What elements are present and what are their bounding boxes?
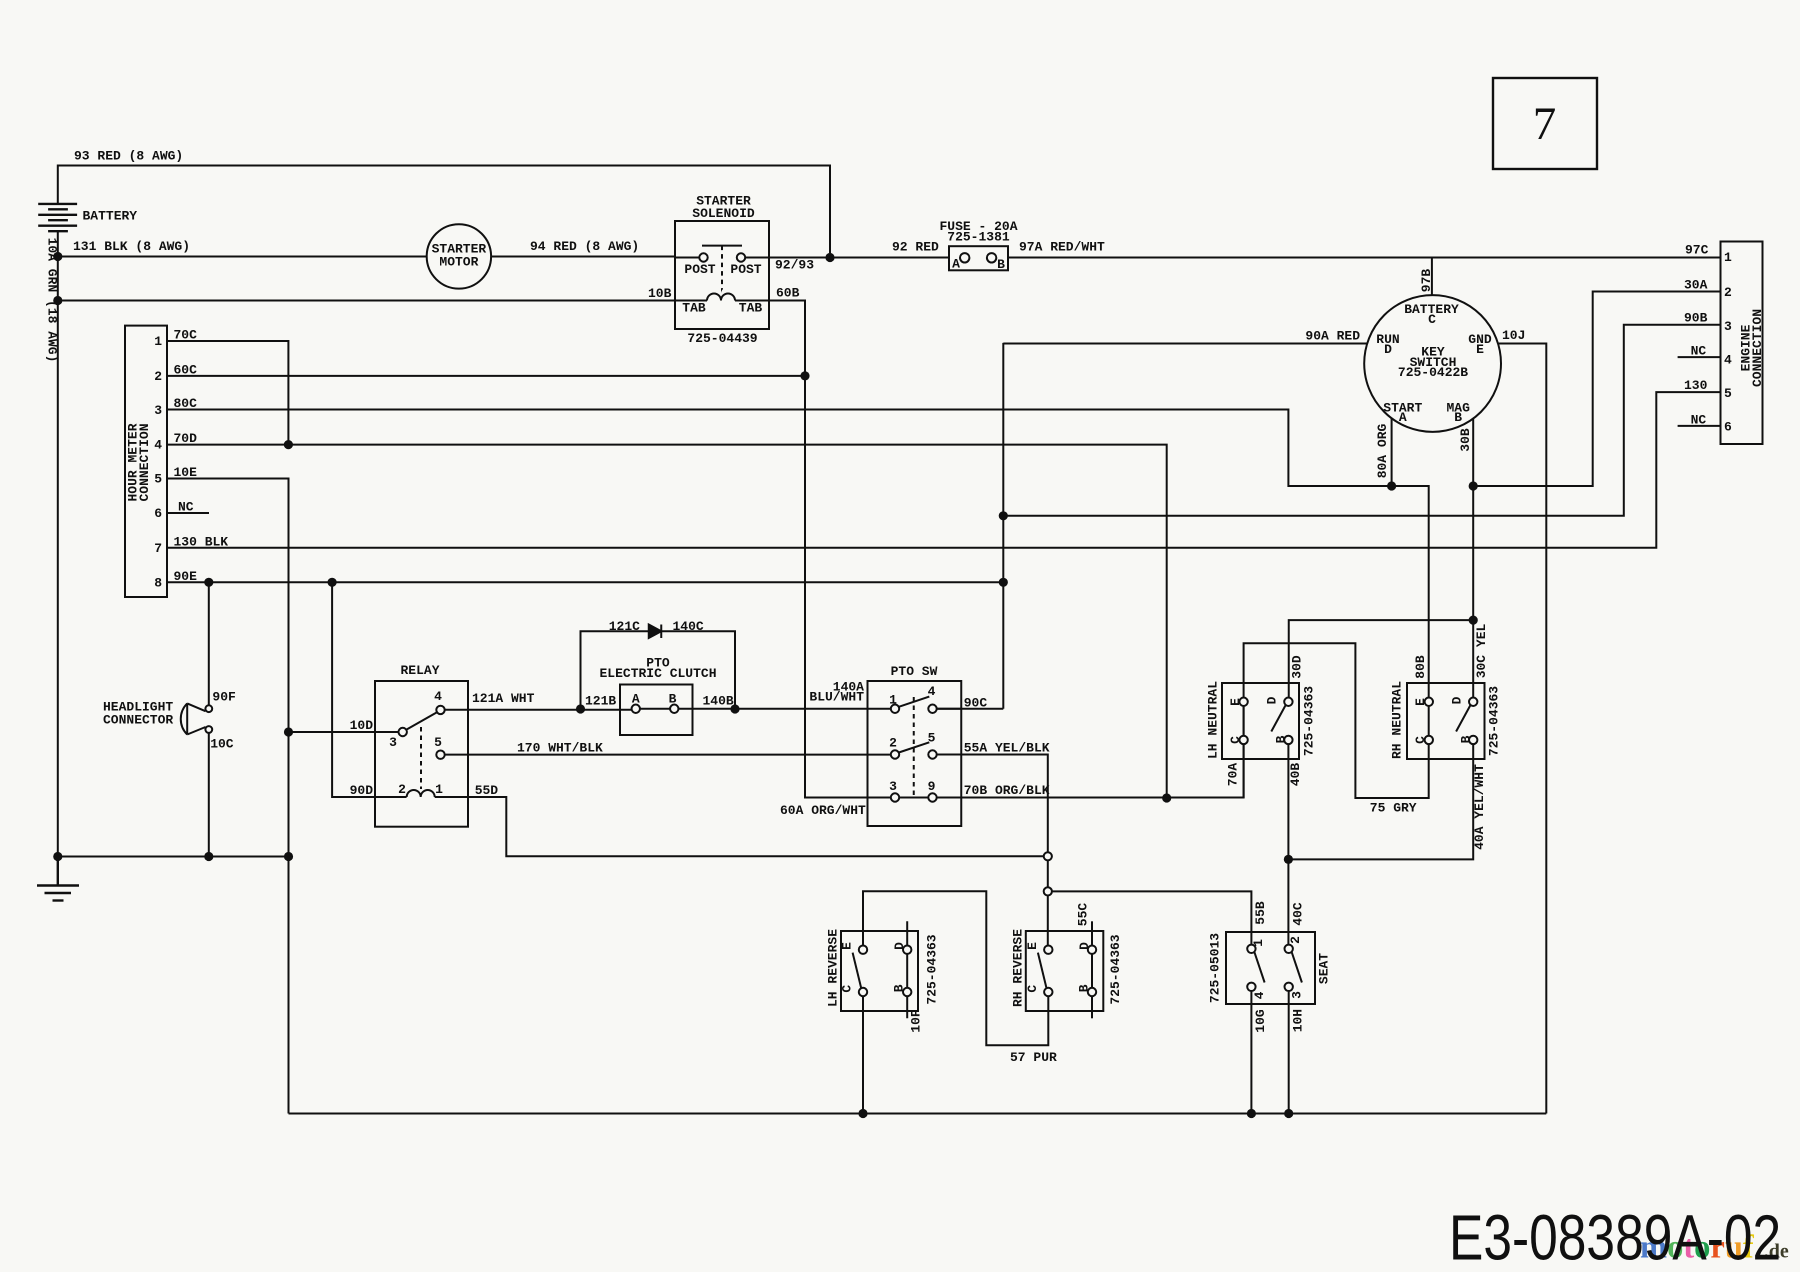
node battery-131 junction bbox=[53, 252, 62, 261]
lh reverse 725-04363 bbox=[841, 921, 918, 1018]
svg-text:TAB: TAB bbox=[682, 301, 706, 316]
svg-text:A: A bbox=[632, 692, 640, 707]
wire 80 net bbox=[167, 410, 1429, 698]
svg-text:90E: 90E bbox=[174, 569, 198, 584]
svg-text:8: 8 bbox=[154, 575, 162, 590]
wire seat 10G bbox=[1250, 991, 1252, 1114]
wire 90 vertical bbox=[1002, 343, 1004, 709]
svg-text:725-04363: 725-04363 bbox=[925, 934, 940, 1004]
wire 60 vertical to PTO bbox=[805, 376, 891, 798]
svg-text:40A YEL/WHT: 40A YEL/WHT bbox=[1472, 764, 1487, 850]
label 92 RED bbox=[892, 240, 939, 255]
wire 57 PUR bbox=[863, 891, 1048, 1045]
rh reverse 725-04363 bbox=[1026, 921, 1104, 1018]
label 30C YEL bbox=[1474, 623, 1489, 678]
node 90 junction bbox=[999, 511, 1008, 520]
label 55B bbox=[1253, 901, 1268, 925]
wire 55D bbox=[435, 797, 1044, 856]
svg-text:CONNECTION: CONNECTION bbox=[137, 423, 152, 501]
svg-text:725-0422B: 725-0422B bbox=[1398, 365, 1468, 380]
engine connection bbox=[1678, 242, 1763, 445]
wire 94 RED bbox=[491, 256, 675, 258]
svg-text:RH NEUTRAL: RH NEUTRAL bbox=[1390, 681, 1405, 759]
svg-text:725-04363: 725-04363 bbox=[1108, 934, 1123, 1004]
label 75 GRY bbox=[1370, 801, 1417, 816]
svg-text:CONNECTION: CONNECTION bbox=[1750, 309, 1765, 387]
label clutch A B bbox=[632, 692, 677, 707]
svg-text:92/93: 92/93 bbox=[775, 258, 814, 273]
open circle 55B connector bbox=[1044, 887, 1052, 895]
hour meter connection bbox=[125, 326, 167, 597]
wire NC pin6 stub bbox=[167, 512, 209, 514]
svg-text:RELAY: RELAY bbox=[400, 663, 439, 678]
wire lh reverse C to rail bbox=[862, 996, 864, 1113]
svg-text:1: 1 bbox=[154, 334, 162, 349]
svg-text:D: D bbox=[1077, 942, 1092, 950]
svg-text:ELECTRIC CLUTCH: ELECTRIC CLUTCH bbox=[599, 666, 716, 681]
wire 60C bbox=[167, 375, 805, 377]
wire 90A RED bbox=[1003, 343, 1367, 345]
label E3-08389A-02 bbox=[1449, 1202, 1781, 1272]
svg-text:140C: 140C bbox=[673, 619, 704, 634]
svg-text:2: 2 bbox=[1724, 285, 1732, 300]
svg-text:30D: 30D bbox=[1290, 655, 1305, 679]
node 121B junction bbox=[576, 704, 585, 713]
svg-text:D: D bbox=[1449, 696, 1464, 704]
svg-text:D: D bbox=[1384, 342, 1392, 357]
node headlight ground junction bbox=[204, 852, 213, 861]
svg-text:9: 9 bbox=[928, 779, 936, 794]
key switch 725-0422B bbox=[1364, 295, 1501, 432]
svg-text:55B: 55B bbox=[1253, 901, 1268, 925]
svg-text:70C: 70C bbox=[174, 328, 198, 343]
wire 55B to seat bbox=[1052, 891, 1252, 944]
label 55A YEL/BLK bbox=[964, 740, 1050, 755]
svg-text:6: 6 bbox=[154, 506, 162, 521]
svg-text:30A: 30A bbox=[1684, 278, 1708, 293]
label key switch bbox=[1376, 302, 1492, 425]
svg-text:C: C bbox=[1025, 985, 1040, 993]
node rail 10G junction bbox=[1247, 1109, 1256, 1118]
label seat pins bbox=[1251, 936, 1305, 1000]
starter solenoid 725-04439 bbox=[675, 221, 830, 329]
wire 70C bbox=[167, 341, 288, 445]
wire 10B bbox=[58, 300, 707, 302]
svg-text:4: 4 bbox=[1252, 991, 1267, 999]
label RELAY bbox=[400, 663, 439, 678]
svg-text:140B: 140B bbox=[703, 694, 734, 709]
svg-text:10H: 10H bbox=[1291, 1009, 1306, 1032]
wire 131 BLK bbox=[58, 256, 427, 258]
svg-text:C: C bbox=[1428, 312, 1436, 327]
svg-text:C: C bbox=[840, 985, 855, 993]
svg-text:B: B bbox=[1076, 984, 1091, 992]
svg-text:30B: 30B bbox=[1458, 428, 1473, 452]
label engine connection bbox=[1739, 309, 1766, 387]
svg-text:B: B bbox=[1454, 410, 1462, 425]
svg-text:5: 5 bbox=[434, 735, 442, 750]
svg-text:E: E bbox=[1476, 342, 1484, 357]
wire 70B ORG/BLK bbox=[961, 706, 1243, 798]
label 55D bbox=[475, 783, 499, 798]
label 10A GRN bbox=[45, 238, 60, 363]
svg-text:D: D bbox=[1265, 696, 1280, 704]
wire 10E bbox=[167, 479, 289, 1114]
wire 60B bbox=[769, 301, 805, 376]
label 140A BLU/WHT bbox=[809, 680, 864, 705]
label rh neutral 725-04363 bbox=[1487, 686, 1502, 756]
label lh reverse 725-04363 bbox=[925, 934, 940, 1004]
svg-text:130: 130 bbox=[1684, 378, 1708, 393]
wire 90C bbox=[937, 708, 1004, 710]
label RH REVERSE bbox=[1011, 929, 1026, 1007]
label fuse bbox=[939, 219, 1017, 245]
starter motor bbox=[427, 224, 491, 288]
node 60 junction bbox=[800, 371, 809, 380]
svg-text:3: 3 bbox=[889, 779, 897, 794]
label 57 PUR bbox=[1010, 1050, 1057, 1065]
label 725-04439 bbox=[687, 331, 757, 346]
svg-text:10G: 10G bbox=[1253, 1009, 1268, 1033]
label 70B ORG/BLK bbox=[964, 783, 1050, 798]
label 40C bbox=[1291, 902, 1306, 926]
label 121C 140C bbox=[609, 619, 704, 634]
svg-text:97B: 97B bbox=[1419, 269, 1434, 293]
svg-text:170 WHT/BLK: 170 WHT/BLK bbox=[517, 740, 603, 755]
label 121B 140B bbox=[585, 694, 734, 709]
label 131 BLK bbox=[73, 239, 190, 254]
node rail lh reverse junction bbox=[858, 1109, 867, 1118]
node 90E junction bbox=[999, 578, 1008, 587]
wire 40B bbox=[1287, 744, 1289, 859]
label engine numbers bbox=[1724, 250, 1732, 435]
wire 40C to seat bbox=[1287, 859, 1289, 944]
svg-text:121A WHT: 121A WHT bbox=[472, 691, 535, 706]
svg-text:B: B bbox=[891, 984, 906, 992]
wire 90B to engine bbox=[1003, 325, 1720, 516]
svg-text:97C: 97C bbox=[1685, 243, 1709, 258]
svg-text:RH REVERSE: RH REVERSE bbox=[1011, 929, 1026, 1007]
label 40A YEL/WHT bbox=[1472, 764, 1487, 850]
wire 80A ORG bbox=[1391, 418, 1393, 486]
svg-text:3: 3 bbox=[1290, 991, 1305, 999]
label page number 7 bbox=[1533, 98, 1557, 150]
wire 92 RED to fuse bbox=[830, 257, 949, 259]
svg-text:3: 3 bbox=[1724, 319, 1732, 334]
svg-text:121C: 121C bbox=[609, 619, 640, 634]
svg-text:NC: NC bbox=[178, 500, 194, 515]
label lh reverse pins bbox=[840, 942, 908, 993]
svg-text:5: 5 bbox=[1724, 386, 1732, 401]
svg-text:10F: 10F bbox=[909, 1009, 924, 1033]
label engine pins bbox=[1684, 243, 1709, 428]
label LH NEUTRAL bbox=[1206, 681, 1221, 759]
label 90D bbox=[350, 783, 374, 798]
svg-text:TAB: TAB bbox=[739, 301, 763, 316]
svg-text:1: 1 bbox=[435, 782, 443, 797]
svg-text:725-04363: 725-04363 bbox=[1487, 686, 1502, 756]
diode 121C/140C loop bbox=[581, 625, 736, 710]
wire 90D to relay bbox=[332, 582, 407, 797]
wire 10D to relay bbox=[289, 731, 399, 733]
svg-text:1: 1 bbox=[1724, 250, 1732, 265]
label SEAT bbox=[1317, 953, 1332, 984]
svg-text:CONNECTOR: CONNECTOR bbox=[103, 713, 173, 728]
svg-text:725-05013: 725-05013 bbox=[1208, 933, 1223, 1003]
svg-text:4: 4 bbox=[434, 689, 442, 704]
label 10J bbox=[1502, 328, 1525, 343]
svg-text:PTO SW: PTO SW bbox=[891, 664, 938, 679]
svg-text:10E: 10E bbox=[174, 465, 198, 480]
label 30D bbox=[1290, 655, 1305, 679]
wire 97B bbox=[1431, 258, 1433, 296]
wire 30B bbox=[1472, 419, 1474, 486]
label POST POST bbox=[684, 262, 761, 277]
label 92/93 bbox=[775, 258, 814, 273]
svg-text:10B: 10B bbox=[648, 286, 672, 301]
svg-text:40B: 40B bbox=[1288, 763, 1303, 787]
svg-text:60A ORG/WHT: 60A ORG/WHT bbox=[780, 803, 866, 818]
label pto electric clutch bbox=[599, 655, 716, 681]
svg-text:B: B bbox=[1274, 735, 1289, 743]
label 10H bbox=[1291, 1009, 1306, 1032]
label 90A RED bbox=[1305, 329, 1360, 344]
svg-text:B: B bbox=[997, 257, 1005, 272]
wire 30 net to neutrals bbox=[1289, 486, 1473, 698]
svg-text:55D: 55D bbox=[475, 783, 499, 798]
svg-text:2: 2 bbox=[154, 369, 162, 384]
svg-text:C: C bbox=[1413, 736, 1428, 744]
wire seat 10H bbox=[1288, 991, 1290, 1114]
wire 30A to engine bbox=[1473, 292, 1720, 487]
wire 55A YEL/BLK bbox=[961, 755, 1048, 853]
pto switch PTO SW bbox=[868, 681, 962, 826]
open circle 55D connector bbox=[1044, 852, 1052, 860]
svg-text:3: 3 bbox=[389, 735, 397, 750]
node 70C-70D junction bbox=[284, 440, 293, 449]
svg-text:60C: 60C bbox=[174, 362, 198, 377]
node 30C junction bbox=[1469, 616, 1478, 625]
svg-text:93 RED (8 AWG): 93 RED (8 AWG) bbox=[74, 149, 183, 164]
svg-text:1: 1 bbox=[1251, 939, 1266, 947]
label TAB TAB bbox=[682, 301, 762, 316]
svg-text:94 RED (8 AWG): 94 RED (8 AWG) bbox=[530, 239, 639, 254]
label 80A ORG bbox=[1375, 423, 1390, 478]
node 30B junction bbox=[1469, 481, 1478, 490]
svg-text:E: E bbox=[1228, 698, 1243, 706]
svg-text:90B: 90B bbox=[1684, 311, 1708, 326]
wire battery negative rail bbox=[57, 231, 59, 856]
svg-text:57 PUR: 57 PUR bbox=[1010, 1050, 1057, 1065]
label 60A ORG/WHT bbox=[780, 803, 866, 818]
svg-text:B: B bbox=[1458, 735, 1473, 743]
svg-text:1: 1 bbox=[889, 693, 897, 708]
svg-text:MOTOR: MOTOR bbox=[439, 255, 478, 270]
svg-text:10A GRN (18 AWG): 10A GRN (18 AWG) bbox=[45, 238, 60, 363]
wire 70D bbox=[167, 445, 1167, 798]
relay bbox=[375, 681, 468, 827]
node 90E-relay junction bbox=[328, 578, 337, 587]
svg-text:6: 6 bbox=[1724, 420, 1732, 435]
svg-text:NC: NC bbox=[1691, 412, 1707, 427]
svg-text:BLU/WHT: BLU/WHT bbox=[809, 690, 864, 705]
label seat 725-05013 bbox=[1208, 933, 1223, 1003]
svg-text:10J: 10J bbox=[1502, 328, 1525, 343]
label fuse A B bbox=[952, 257, 1005, 273]
watermark motoruf.de bbox=[1640, 1230, 1789, 1266]
label 70A bbox=[1226, 763, 1241, 787]
wire ground line bbox=[58, 856, 289, 858]
svg-text:C: C bbox=[1228, 736, 1243, 744]
wire 130 net bbox=[167, 392, 1721, 548]
label hour meter numbers bbox=[154, 334, 162, 590]
headlight connector bbox=[181, 582, 212, 856]
label 30B bbox=[1458, 428, 1473, 452]
wire 170 WHT/BLK bbox=[445, 754, 891, 756]
svg-text:90A RED: 90A RED bbox=[1305, 329, 1360, 344]
svg-text:10D: 10D bbox=[350, 718, 374, 733]
label BATTERY bbox=[83, 209, 138, 224]
label lh neutral pins bbox=[1228, 696, 1289, 744]
svg-text:80C: 80C bbox=[174, 396, 198, 411]
label starter solenoid bbox=[692, 194, 755, 222]
svg-text:E3-08389A-02: E3-08389A-02 bbox=[1449, 1202, 1781, 1272]
label 10F bbox=[909, 1009, 924, 1033]
svg-text:75 GRY: 75 GRY bbox=[1370, 801, 1417, 816]
svg-text:90C: 90C bbox=[964, 695, 988, 710]
node 90E-headlight junction bbox=[204, 578, 213, 587]
svg-text:725-04363: 725-04363 bbox=[1302, 686, 1317, 756]
label 170 WHT/BLK bbox=[517, 740, 603, 755]
svg-text:D: D bbox=[892, 942, 907, 950]
label hour meter connection bbox=[126, 423, 153, 501]
svg-text:725-1381: 725-1381 bbox=[947, 230, 1010, 245]
svg-text:70B ORG/BLK: 70B ORG/BLK bbox=[964, 783, 1050, 798]
svg-text:90F: 90F bbox=[212, 690, 236, 705]
label rh neutral pins bbox=[1413, 696, 1473, 744]
label hour meter pins bbox=[174, 328, 229, 584]
svg-text:121B: 121B bbox=[585, 694, 616, 709]
svg-text:130 BLK: 130 BLK bbox=[174, 534, 229, 549]
svg-text:SOLENOID: SOLENOID bbox=[692, 206, 755, 221]
svg-text:70A: 70A bbox=[1226, 763, 1241, 787]
label lh neutral 725-04363 bbox=[1302, 686, 1317, 756]
svg-text:B: B bbox=[669, 692, 677, 707]
wire 121A WHT bbox=[445, 709, 632, 711]
rh neutral 725-04363 bbox=[1407, 683, 1485, 759]
label 90C bbox=[964, 695, 988, 710]
node rail 10H junction bbox=[1284, 1109, 1293, 1118]
svg-text:E: E bbox=[840, 942, 855, 950]
battery BATTERY bbox=[38, 204, 77, 231]
node 70D-70B junction bbox=[1162, 793, 1171, 802]
label 121A WHT bbox=[472, 691, 535, 706]
svg-text:97A RED/WHT: 97A RED/WHT bbox=[1019, 240, 1105, 255]
label rh reverse pins bbox=[1025, 942, 1092, 993]
svg-text:725-04439: 725-04439 bbox=[687, 331, 757, 346]
label PTO SW bbox=[891, 664, 938, 679]
label 60B bbox=[776, 286, 800, 301]
svg-text:60B: 60B bbox=[776, 286, 800, 301]
svg-text:2: 2 bbox=[1288, 936, 1303, 944]
svg-text:LH REVERSE: LH REVERSE bbox=[826, 929, 841, 1007]
svg-text:5: 5 bbox=[928, 730, 936, 745]
seat switch 725-05013 bbox=[1226, 932, 1315, 1004]
label RH NEUTRAL bbox=[1390, 681, 1405, 759]
label 97A RED/WHT bbox=[1019, 240, 1105, 255]
svg-text:2: 2 bbox=[398, 782, 406, 797]
svg-text:30C YEL: 30C YEL bbox=[1474, 623, 1489, 678]
svg-text:2: 2 bbox=[889, 735, 897, 750]
svg-text:LH NEUTRAL: LH NEUTRAL bbox=[1206, 681, 1221, 759]
svg-text:7: 7 bbox=[1533, 98, 1557, 150]
label headlight connector bbox=[103, 700, 173, 728]
svg-text:SEAT: SEAT bbox=[1317, 953, 1332, 984]
node 92/93 junction bbox=[825, 253, 834, 262]
svg-text:55A YEL/BLK: 55A YEL/BLK bbox=[964, 740, 1050, 755]
node 40 junction bbox=[1284, 855, 1293, 864]
svg-text:E: E bbox=[1025, 942, 1040, 950]
svg-text:5: 5 bbox=[154, 472, 162, 487]
label LH REVERSE bbox=[826, 929, 841, 1007]
frame box 7 bbox=[1493, 78, 1597, 169]
label 97B bbox=[1419, 269, 1434, 293]
svg-text:BATTERY: BATTERY bbox=[83, 209, 138, 224]
svg-text:10C: 10C bbox=[210, 737, 234, 752]
label relay pins bbox=[389, 689, 443, 797]
label 90F bbox=[212, 690, 236, 705]
svg-text:70D: 70D bbox=[174, 431, 198, 446]
label 10G bbox=[1253, 1009, 1268, 1033]
node 10E ground junction bbox=[284, 852, 293, 861]
wire 70A-75GRY loop bbox=[1244, 643, 1429, 798]
svg-text:92 RED: 92 RED bbox=[892, 240, 939, 255]
label 93 RED bbox=[74, 149, 183, 164]
lh neutral 725-04363 bbox=[1222, 683, 1299, 798]
wire bottom rail bbox=[289, 1113, 1547, 1115]
svg-text:4: 4 bbox=[154, 438, 162, 453]
node ground-rail junction bbox=[53, 852, 62, 861]
fuse 725-1381 bbox=[949, 246, 1008, 270]
label 10C bbox=[210, 737, 234, 752]
wire 40A YEL/WHT bbox=[1288, 744, 1473, 859]
label 40B bbox=[1288, 763, 1303, 787]
svg-text:55C: 55C bbox=[1076, 903, 1091, 927]
node 10D junction bbox=[284, 727, 293, 736]
svg-text:40C: 40C bbox=[1291, 902, 1306, 926]
svg-text:80B: 80B bbox=[1413, 655, 1428, 679]
wire 97A RED/WHT bbox=[1008, 257, 1721, 259]
label 10B bbox=[648, 286, 672, 301]
svg-text:POST: POST bbox=[684, 262, 715, 277]
wire 10J bbox=[1498, 344, 1546, 1114]
label starter motor bbox=[432, 242, 487, 270]
svg-text:E: E bbox=[1413, 698, 1428, 706]
svg-text:POST: POST bbox=[730, 262, 761, 277]
svg-text:80A ORG: 80A ORG bbox=[1375, 423, 1390, 478]
label 55C bbox=[1076, 903, 1091, 927]
svg-text:131 BLK (8 AWG): 131 BLK (8 AWG) bbox=[73, 239, 190, 254]
wire 55 vertical bbox=[1047, 860, 1049, 945]
svg-text:7: 7 bbox=[154, 541, 162, 556]
svg-text:4: 4 bbox=[1724, 353, 1732, 368]
svg-text:NC: NC bbox=[1691, 344, 1707, 359]
wire 90E bbox=[167, 581, 1003, 583]
ground bbox=[37, 857, 79, 901]
label 94 RED bbox=[530, 239, 639, 254]
node battery-10B junction bbox=[53, 296, 62, 305]
label pto pins bbox=[889, 684, 936, 794]
